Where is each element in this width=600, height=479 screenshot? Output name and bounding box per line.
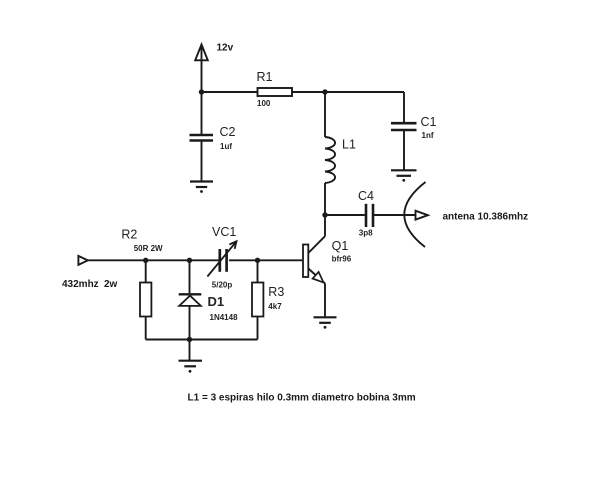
ground below Q1 [314, 317, 337, 328]
svg-text:5/20p: 5/20p [212, 281, 233, 290]
node junction at 12v rail [199, 89, 204, 94]
node D1 [187, 258, 192, 263]
trimmer capacitor VC1 [207, 225, 236, 290]
svg-text:1nf: 1nf [422, 131, 434, 140]
svg-text:antena 10.386mhz: antena 10.386mhz [443, 212, 529, 223]
capacitor C2 [190, 92, 236, 181]
resistor R1 [257, 70, 293, 108]
svg-text:100: 100 [257, 99, 271, 108]
ground below C1 [391, 170, 417, 181]
svg-text:2w: 2w [104, 279, 118, 290]
diode D1 [179, 260, 238, 339]
antenna feed arrow [416, 211, 428, 220]
svg-text:1N4148: 1N4148 [210, 313, 239, 322]
svg-text:Q1: Q1 [332, 239, 349, 253]
svg-text:C4: C4 [358, 189, 374, 203]
node R3/VC1 [255, 258, 260, 263]
svg-text:C2: C2 [220, 125, 236, 139]
wire input rail left [88, 259, 219, 261]
node bottom rail [187, 337, 192, 342]
wire to ground [189, 340, 191, 361]
bottom rail wire [146, 339, 258, 341]
svg-text:12v: 12v [217, 43, 234, 54]
svg-text:D1: D1 [208, 294, 225, 309]
transistor Q1 [303, 215, 352, 317]
capacitor C4 [358, 189, 374, 238]
ground below D1 [179, 361, 203, 373]
svg-text:R3: R3 [268, 285, 284, 299]
wire C4 to antenna [374, 214, 416, 216]
svg-text:432mhz: 432mhz [62, 279, 99, 290]
svg-text:C1: C1 [421, 115, 437, 129]
wire input rail right [229, 259, 303, 261]
svg-text:1uf: 1uf [220, 142, 232, 151]
node junction R1 to L1 [322, 89, 327, 94]
svg-text:4k7: 4k7 [268, 302, 282, 311]
svg-text:L1: L1 [342, 138, 356, 152]
input arrow 432mhz [78, 256, 87, 265]
svg-text:L1 = 3 espiras hilo 0.3mm: L1 = 3 espiras hilo 0.3mm diametro bobin… [188, 393, 416, 404]
power symbol 12v [195, 45, 208, 93]
svg-text:R1: R1 [257, 70, 273, 84]
wire top rail right [292, 91, 404, 93]
capacitor C1 [391, 92, 437, 170]
svg-text:R2: R2 [121, 228, 137, 242]
node R2 [143, 258, 148, 263]
wire top rail left [202, 91, 258, 93]
antenna dish arc [404, 182, 425, 247]
resistor R3 [252, 260, 284, 339]
ground below C2 [190, 182, 213, 193]
svg-text:3p8: 3p8 [359, 228, 373, 237]
svg-text:bfr96: bfr96 [332, 255, 352, 264]
resistor R2 [121, 228, 163, 340]
svg-text:50R 2W: 50R 2W [134, 244, 163, 253]
wire node to C4 [325, 214, 365, 216]
svg-text:VC1: VC1 [212, 225, 236, 239]
label 432mhz 2w [62, 279, 118, 290]
inductor L1 [325, 92, 356, 215]
node L1/Q1/C4 [322, 212, 327, 217]
